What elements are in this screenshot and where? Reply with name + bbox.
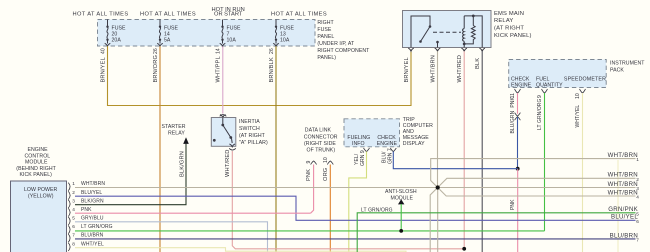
svg-text:WHT/RED: WHT/RED: [225, 149, 231, 177]
svg-text:BRN/YEL: BRN/YEL: [404, 57, 410, 82]
splice S1 WHT/BRN branch to line 1: [431, 159, 636, 188]
svg-text:20A: 20A: [112, 38, 122, 44]
svg-text:GRN 9: GRN 9: [360, 150, 366, 166]
svg-text:LT GRN/ORG: LT GRN/ORG: [361, 207, 393, 213]
engine control module U1 box: [11, 181, 67, 252]
svg-text:BLK: BLK: [475, 58, 481, 69]
anti-slosh module name label: [385, 189, 417, 202]
svg-text:PNK: PNK: [510, 96, 516, 107]
EMS main relay name label: [494, 11, 532, 39]
svg-text:14: 14: [164, 32, 170, 38]
svg-text:(BEHIND RIGHT: (BEHIND RIGHT: [16, 166, 56, 172]
check engine indicator label: [511, 76, 532, 88]
connector fishtail at DLC pin 9: [311, 161, 317, 165]
svg-text:SPEEDOMETER: SPEEDOMETER: [564, 77, 606, 83]
wire BLK from relay pin 4 down off-page: [481, 51, 483, 252]
svg-text:GRN 7: GRN 7: [388, 148, 394, 164]
svg-text:HOT AT ALL TIMES: HOT AT ALL TIMES: [73, 12, 129, 18]
starter relay arrow: [183, 137, 189, 144]
inertia switch contacts: [213, 118, 232, 144]
fuse F14 value label: [164, 25, 179, 43]
ECM pin 5 bracket: [68, 217, 70, 225]
wire BLU/GRN from connector to junction J2: [517, 117, 519, 169]
check engine indicator label (trip): [377, 135, 398, 147]
wire BRN/BLK from fuse 13 down off-page: [275, 46, 277, 252]
svg-text:HOT AT ALL TIMES: HOT AT ALL TIMES: [140, 12, 196, 18]
svg-text:ENGINE: ENGINE: [377, 141, 398, 147]
wire ORG from DLC down off-page: [329, 165, 331, 252]
wire WHT/BRN from relay pin 2 to splice S1: [437, 51, 439, 187]
instrument pack box: [509, 60, 607, 88]
svg-text:DISPLAY: DISPLAY: [403, 141, 425, 147]
svg-text:FUSE: FUSE: [317, 27, 332, 33]
svg-text:WHT/BRN: WHT/BRN: [608, 152, 638, 159]
fuse F7 value label: [227, 25, 242, 43]
svg-text:10A: 10A: [280, 38, 290, 44]
svg-text:INERTIA: INERTIA: [239, 119, 260, 125]
junction J2 dot: [516, 167, 520, 171]
svg-text:PACK: PACK: [610, 67, 624, 73]
wire LT GRN/ORG from fuel quantity to ECM pin 6 line: [544, 93, 546, 231]
svg-text:CHECK: CHECK: [377, 135, 396, 141]
svg-text:WHT/BRN: WHT/BRN: [431, 55, 437, 83]
svg-text:WHT/BRN: WHT/BRN: [81, 181, 105, 187]
svg-text:BRN/BLK: BRN/BLK: [269, 57, 275, 82]
splice S1 WHT/BRN branch down-left off-page: [430, 188, 438, 252]
svg-text:WHT/BRN: WHT/BRN: [608, 189, 638, 196]
svg-text:40: 40: [101, 48, 107, 54]
svg-text:9: 9: [306, 161, 312, 164]
fuse F20 value label: [112, 25, 127, 43]
connector fishtail at fuel quantity pin 9: [542, 89, 548, 93]
ECM pin 8 bracket: [68, 243, 70, 251]
ECM pin 7 bracket: [68, 234, 70, 242]
svg-text:PNK: PNK: [510, 199, 516, 210]
svg-text:PANEL: PANEL: [317, 34, 334, 40]
fuse F7: [220, 20, 226, 47]
svg-text:OF TRUNK): OF TRUNK): [307, 148, 336, 154]
svg-text:STARTER: STARTER: [162, 124, 186, 130]
svg-text:4: 4: [636, 195, 639, 200]
fuse F13 value label: [280, 25, 295, 43]
svg-text:7: 7: [636, 238, 639, 243]
svg-text:LOW POWER: LOW POWER: [24, 187, 58, 193]
inertia switch name label: [239, 119, 268, 146]
anti-slosh module arrow: [398, 199, 404, 204]
wire PNK continuation below junction J2 off-page: [517, 169, 519, 252]
svg-text:26: 26: [153, 48, 159, 54]
wire WHT/YEL branch at far right down off-page: [617, 160, 619, 252]
svg-text:EMS MAIN: EMS MAIN: [494, 11, 524, 17]
svg-text:WHT/PPL: WHT/PPL: [216, 56, 222, 82]
svg-text:(AT RIGHT: (AT RIGHT: [239, 133, 266, 139]
relay pin arrows: [408, 48, 485, 51]
wire WHT/YEL from ECM pin 8 down off-page: [75, 248, 406, 252]
svg-text:14: 14: [216, 48, 222, 54]
wire BRN/ORG from fuse 14 down off-page: [159, 46, 161, 252]
svg-text:FUEL: FUEL: [536, 76, 550, 82]
svg-text:RIGHT COMPONENT: RIGHT COMPONENT: [317, 48, 370, 54]
svg-text:QUANTITY: QUANTITY: [536, 83, 563, 89]
EMS main relay box: [403, 11, 492, 48]
wire WHT/RED from inertia switch to junction J3: [232, 151, 464, 249]
fuse panel name label: [317, 20, 370, 61]
svg-text:BLU/BRN: BLU/BRN: [610, 232, 638, 239]
svg-text:1: 1: [72, 181, 75, 186]
svg-text:ORG: ORG: [323, 168, 329, 181]
svg-text:BLK/GRN: BLK/GRN: [180, 151, 186, 177]
wire BLK/GRN from ECM pin 3 to starter relay: [75, 144, 186, 205]
wire LT GRN/ORG anti-slosh branch: [400, 204, 402, 231]
starter relay name label: [162, 124, 186, 137]
svg-text:5A: 5A: [164, 38, 171, 44]
wire WHT/PPL from fuse 7 to inertia switch: [222, 46, 224, 113]
svg-text:5: 5: [72, 216, 75, 221]
trip computer name label: [403, 117, 433, 147]
svg-text:FUSE: FUSE: [280, 25, 295, 31]
svg-text:BRN/YEL: BRN/YEL: [101, 57, 107, 82]
wire GRN/PNK line 5 from riser to right edge: [357, 213, 635, 252]
svg-text:RIGHT: RIGHT: [317, 20, 334, 26]
inertia switch connector arc (bottom): [229, 148, 236, 150]
splice S1 dot: [436, 185, 440, 189]
svg-text:BLU/BRN: BLU/BRN: [81, 233, 104, 239]
wire WHT/RED from relay pin 3 to splice with inertia feed: [463, 51, 465, 249]
svg-text:13: 13: [280, 32, 286, 38]
fuse F20: [105, 20, 111, 47]
svg-text:3: 3: [72, 198, 75, 203]
fuse F14: [157, 20, 163, 47]
svg-text:WHT/YEL: WHT/YEL: [575, 105, 581, 128]
svg-text:SWITCH: SWITCH: [239, 126, 260, 132]
svg-text:FUSE: FUSE: [112, 25, 127, 31]
data link connector name label: [304, 128, 338, 154]
wire BLU/BRN from ECM pin 7 to right edge: [75, 238, 636, 240]
svg-text:10: 10: [575, 93, 581, 99]
svg-text:1: 1: [636, 157, 639, 162]
svg-text:LT GRN/ORG: LT GRN/ORG: [537, 99, 543, 130]
wire PNK from DLC to ECM pin 4 line: [311, 165, 314, 214]
wire YEL/GRN from fueling info down off-page: [349, 152, 367, 252]
wire LT GRN/ORG from ECM pin 6 to fuel quantity riser: [75, 230, 545, 232]
ECM pin 1 bracket: [68, 183, 70, 191]
connector fishtail at DLC pin 10: [327, 161, 333, 165]
svg-text:6: 6: [636, 219, 639, 224]
svg-text:INSTRUMENT: INSTRUMENT: [610, 60, 645, 66]
svg-text:INFO: INFO: [352, 141, 365, 147]
junction J1 dot on LT GRN/ORG line: [399, 229, 403, 233]
svg-text:MODULE: MODULE: [25, 160, 48, 166]
svg-text:(YELLOW): (YELLOW): [28, 194, 54, 200]
svg-text:CONNECTOR: CONNECTOR: [304, 134, 338, 140]
engine control module name label: [16, 147, 56, 178]
svg-text:LT GRN/ORG: LT GRN/ORG: [81, 224, 113, 230]
relay actuation dashed link: [433, 31, 461, 33]
wire WHT/YEL from speedometer down off-page: [582, 93, 584, 252]
svg-text:8: 8: [72, 241, 75, 246]
wire PNK from ECM pin 4 to DLC riser: [75, 212, 311, 214]
svg-text:FUSE: FUSE: [164, 25, 179, 31]
inertia switch connector arc (top): [220, 115, 227, 117]
inertia switch box: [211, 118, 236, 147]
connector fishtail at trip check engine pin 7: [390, 148, 396, 152]
wire BLU/GRN from trip check engine to junction J2: [393, 152, 517, 169]
svg-text:PNK: PNK: [306, 169, 312, 181]
svg-text:WHT/BRN: WHT/BRN: [608, 181, 638, 188]
svg-text:26: 26: [269, 48, 275, 54]
svg-text:OR START: OR START: [214, 12, 243, 18]
svg-text:BLU/YEL: BLU/YEL: [611, 214, 638, 221]
ECM pin 3 bracket: [68, 200, 70, 208]
svg-text:FUSE: FUSE: [227, 25, 242, 31]
ECM pin 6 bracket: [68, 226, 70, 234]
svg-text:WHT/YEL: WHT/YEL: [81, 241, 104, 247]
splice S1 WHT/BRN branch to line 4: [438, 188, 636, 197]
splice S1 WHT/BRN branch straight down off-page: [437, 188, 439, 252]
inertia switch entry arrow: [220, 115, 226, 118]
svg-text:HOT AT ALL TIMES: HOT AT ALL TIMES: [271, 12, 327, 18]
ECM pin 2 bracket: [68, 191, 70, 199]
fuel quantity gauge label: [536, 76, 563, 88]
svg-text:GRN/PNK: GRN/PNK: [608, 206, 638, 213]
svg-text:MODULE: MODULE: [391, 195, 414, 201]
svg-text:DATA LINK: DATA LINK: [305, 128, 332, 134]
inline connector C1: [515, 113, 521, 121]
svg-text:RELAY: RELAY: [494, 18, 513, 24]
svg-text:20: 20: [112, 32, 118, 38]
wire WHT/BRN from ECM pin 1 to splice S1: [75, 187, 438, 189]
svg-text:KICK PANEL): KICK PANEL): [494, 33, 532, 39]
svg-text:7: 7: [227, 32, 230, 38]
wire PNK from check engine: [517, 93, 519, 114]
relay switch contact: [411, 16, 439, 48]
svg-text:4: 4: [72, 207, 75, 212]
svg-text:BLK/GRN: BLK/GRN: [81, 198, 104, 204]
svg-text:"A" PILLAR): "A" PILLAR): [239, 140, 268, 146]
svg-text:6: 6: [72, 224, 75, 229]
connector fishtail at speedometer pin 10: [580, 89, 586, 93]
svg-text:KICK PANEL): KICK PANEL): [20, 172, 53, 178]
svg-text:RELAY: RELAY: [168, 131, 185, 137]
svg-text:CHECK: CHECK: [511, 76, 530, 82]
svg-text:7: 7: [72, 233, 75, 238]
svg-text:BLU/YEL: BLU/YEL: [81, 190, 102, 196]
svg-text:CONTROL: CONTROL: [25, 153, 51, 159]
svg-text:10A: 10A: [227, 38, 237, 44]
wire GRY/BLU from ECM pin 5 down off-page: [75, 222, 268, 252]
svg-text:WHT/BRN: WHT/BRN: [608, 172, 638, 179]
svg-text:(AT RIGHT: (AT RIGHT: [494, 26, 524, 32]
svg-text:FUELING: FUELING: [347, 135, 370, 141]
svg-text:2: 2: [72, 190, 75, 195]
ECM connector name label: [24, 187, 58, 200]
wire BRN/YEL from fuse 20 to EMS relay pin 1: [108, 46, 412, 105]
splice S1 WHT/BRN branch to line 2: [438, 178, 636, 187]
svg-text:(RIGHT SIDE: (RIGHT SIDE: [304, 141, 336, 147]
junction J3 dot: [462, 247, 466, 251]
connector fishtail at check engine pin 11: [515, 89, 521, 93]
svg-text:PNK: PNK: [81, 207, 92, 213]
instrument pack name label: [610, 60, 645, 73]
ECM pin 4 bracket: [68, 208, 70, 216]
connector fishtail at fueling info pin 9: [364, 148, 370, 152]
svg-text:BRN/ORG: BRN/ORG: [153, 55, 159, 83]
svg-text:BLU/GRN: BLU/GRN: [510, 110, 516, 133]
svg-text:10: 10: [323, 157, 329, 163]
fuse F13: [273, 20, 279, 47]
svg-text:WHT/RED: WHT/RED: [457, 55, 463, 83]
inertia switch exit arrow: [229, 144, 235, 147]
svg-text:(UNDER I/P, AT: (UNDER I/P, AT: [317, 41, 355, 47]
svg-text:ANTI-SLOSH: ANTI-SLOSH: [385, 189, 417, 195]
svg-text:ENGINE: ENGINE: [511, 83, 532, 89]
wire BLU/YEL from ECM pin 2 to right edge: [75, 196, 636, 220]
svg-text:ENGINE: ENGINE: [28, 147, 49, 153]
label HOT IN RUN OR START (fuse 7): [212, 7, 245, 18]
right fuse panel box: [98, 20, 316, 47]
svg-text:PANEL): PANEL): [317, 55, 336, 61]
svg-text:9: 9: [537, 95, 543, 98]
trip computer and message display box: [344, 119, 400, 147]
splice S1 WHT/BRN branch to line 3: [438, 187, 636, 189]
relay coil with parallel resistor: [463, 15, 483, 48]
fueling info indicator label: [347, 135, 370, 147]
svg-text:GRY/BLU: GRY/BLU: [81, 216, 104, 222]
